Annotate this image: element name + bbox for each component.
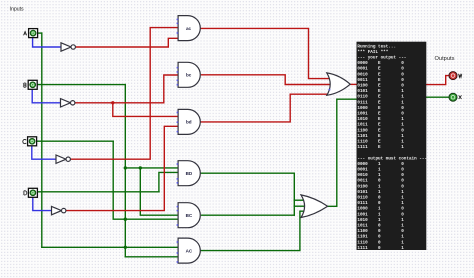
wire: stub into OR1 pin2 <box>294 205 306 207</box>
svg-text:0: 0 <box>401 128 404 133</box>
AND gate bc <box>177 62 201 87</box>
svg-text:1100: 1100 <box>357 229 368 234</box>
svg-text:1: 1 <box>378 173 381 178</box>
junction NOT B branch <box>111 101 114 104</box>
svg-text:0: 0 <box>401 173 404 178</box>
AND gate BC <box>177 203 201 228</box>
wire: B green into AC pin2 <box>125 256 178 258</box>
svg-text:0: 0 <box>401 207 404 212</box>
svg-text:E: E <box>378 84 381 89</box>
wire: C green from pin to vertical <box>37 140 114 142</box>
svg-text:1: 1 <box>401 140 404 145</box>
wire: A green vertical down to AC gate row <box>41 33 43 247</box>
wire: A green horizontal into AC pin1 <box>42 246 178 248</box>
svg-text:1111: 1111 <box>357 246 368 251</box>
junction B to BD branch <box>124 166 127 169</box>
svg-text:1: 1 <box>401 123 404 128</box>
svg-text:0: 0 <box>401 168 404 173</box>
wire: branch down from BD line to BC pin1 <box>140 168 178 215</box>
svg-text:E: E <box>378 134 381 139</box>
svg-text:1: 1 <box>401 89 404 94</box>
svg-text:0: 0 <box>401 179 404 184</box>
svg-text:1: 1 <box>401 224 404 229</box>
svg-text:Outputs: Outputs <box>435 56 455 62</box>
svg-text:0: 0 <box>401 229 404 234</box>
svg-text:0: 0 <box>378 246 381 251</box>
input pin A <box>24 29 38 38</box>
NOT gate B <box>61 99 71 107</box>
svg-text:1: 1 <box>401 201 404 206</box>
svg-text:0: 0 <box>401 72 404 77</box>
wire: D green from pin right <box>37 191 159 193</box>
svg-text:1: 1 <box>401 190 404 195</box>
svg-text:E: E <box>378 123 381 128</box>
wire: NOT B output east <box>75 102 164 104</box>
svg-text:1: 1 <box>401 95 404 100</box>
wire: console to X pin <box>426 96 448 98</box>
svg-text:1: 1 <box>401 117 404 122</box>
svg-text:1: 1 <box>378 184 381 189</box>
svg-text:1: 1 <box>401 218 404 223</box>
wire: OR1 output up to console <box>328 99 357 206</box>
svg-text:0: 0 <box>378 235 381 240</box>
svg-text:1100: 1100 <box>357 128 368 133</box>
svg-text:0: 0 <box>401 67 404 72</box>
AND gate BD <box>177 161 201 186</box>
svg-text:0: 0 <box>401 112 404 117</box>
svg-text:0: 0 <box>378 224 381 229</box>
junction A line crosses B vertical <box>124 246 127 249</box>
svg-text:BC: BC <box>186 213 193 218</box>
wire: NOT A output to ac lower pin (step) <box>76 38 179 47</box>
svg-text:E: E <box>378 67 381 72</box>
wire: B branch to BD pin1 <box>125 167 178 169</box>
svg-text:E: E <box>378 100 381 105</box>
wire: bd output to OR2 pin4 <box>200 94 330 122</box>
AND gate AC <box>177 238 201 263</box>
svg-text:1: 1 <box>378 218 381 223</box>
svg-text:0110: 0110 <box>357 196 368 201</box>
svg-text:1: 1 <box>378 212 381 217</box>
output pin X <box>449 93 462 101</box>
svg-text:0: 0 <box>401 162 404 167</box>
wire: B green vertical down <box>124 85 126 257</box>
svg-text:1001: 1001 <box>357 112 368 117</box>
AND gate ac <box>177 16 201 41</box>
svg-text:0111: 0111 <box>357 201 368 206</box>
svg-text:1: 1 <box>401 246 404 251</box>
svg-text:E: E <box>378 78 381 83</box>
svg-text:E: E <box>378 106 381 111</box>
svg-text:*** FAIL ***: *** FAIL *** <box>357 50 388 55</box>
svg-text:0011: 0011 <box>357 78 368 83</box>
svg-text:E: E <box>378 112 381 117</box>
junction BD line to BC branch <box>139 166 142 169</box>
input pin B <box>24 80 37 89</box>
svg-text:0011: 0011 <box>357 179 368 184</box>
OR gate U2 (top, to W) <box>327 73 350 95</box>
wire: stub into OR1 pin1 <box>294 199 305 201</box>
NOT gate D <box>52 206 62 214</box>
svg-text:1011: 1011 <box>357 123 368 128</box>
wire: B blue stub down to NOT B <box>32 89 60 102</box>
svg-text:0: 0 <box>401 106 404 111</box>
wire: NOT B up into bc pin <box>164 75 178 103</box>
svg-text:0: 0 <box>378 196 381 201</box>
svg-text:0: 0 <box>401 184 404 189</box>
input pin D <box>24 188 38 197</box>
wire: A pin to vertical <box>38 32 42 34</box>
svg-text:Running test...: Running test... <box>357 44 396 49</box>
svg-text:BD: BD <box>186 171 193 176</box>
svg-text:E: E <box>378 128 381 133</box>
output pin W <box>449 72 462 80</box>
wire: OR2 output into console area <box>350 83 356 85</box>
svg-text:1: 1 <box>378 190 381 195</box>
wire: C green vertical down then right to BC pin2 <box>113 141 178 219</box>
svg-text:bc: bc <box>186 73 192 78</box>
svg-text:--- output must contain ---: --- output must contain --- <box>357 156 427 161</box>
svg-text:1110: 1110 <box>357 240 368 245</box>
wire: B green from pin to vertical <box>37 84 125 86</box>
wire: BD output down to OR1 <box>200 173 294 215</box>
wire: NOT D output to bd pin2 (up at x=165) <box>66 126 178 210</box>
svg-text:0110: 0110 <box>357 95 368 100</box>
svg-text:0101: 0101 <box>357 89 368 94</box>
wire: A blue stub down to NOT A <box>33 38 61 47</box>
svg-text:E: E <box>378 140 381 145</box>
svg-text:0101: 0101 <box>357 190 368 195</box>
svg-text:1: 1 <box>401 145 404 150</box>
wire: NOT C output up to ac upper pin <box>71 28 179 160</box>
svg-text:0001: 0001 <box>357 67 368 72</box>
svg-text:0100: 0100 <box>357 84 368 89</box>
svg-text:1001: 1001 <box>357 212 368 217</box>
svg-text:1000: 1000 <box>357 207 368 212</box>
svg-text:0000: 0000 <box>357 162 368 167</box>
wire: ac output to OR2 pin1 <box>200 28 330 78</box>
svg-text:0010: 0010 <box>357 173 368 178</box>
OR gate U1 (bottom, to X) <box>301 195 328 218</box>
svg-text:1101: 1101 <box>357 235 368 240</box>
svg-text:1: 1 <box>401 240 404 245</box>
input pin C <box>23 137 37 146</box>
svg-text:AC: AC <box>186 248 193 253</box>
junction C line crosses B vertical <box>124 218 127 221</box>
NOT gate A <box>61 43 71 51</box>
svg-text:0: 0 <box>401 212 404 217</box>
svg-text:1: 1 <box>378 162 381 167</box>
svg-text:bd: bd <box>186 120 192 125</box>
svg-text:1110: 1110 <box>357 140 368 145</box>
svg-text:1: 1 <box>401 196 404 201</box>
svg-text:0: 0 <box>378 229 381 234</box>
svg-text:1000: 1000 <box>357 106 368 111</box>
NOT gate C <box>56 155 66 163</box>
svg-text:E: E <box>378 117 381 122</box>
svg-text:0: 0 <box>401 78 404 83</box>
svg-text:1: 1 <box>378 168 381 173</box>
wire: BC output joins BD vertical <box>202 214 295 216</box>
console test output panel <box>357 42 428 251</box>
svg-text:E: E <box>378 145 381 150</box>
svg-text:0111: 0111 <box>357 100 368 105</box>
svg-text:E: E <box>378 72 381 77</box>
svg-text:E: E <box>378 89 381 94</box>
svg-text:1: 1 <box>401 134 404 139</box>
wire: console to W pin <box>426 76 448 85</box>
AND gate bd <box>177 109 201 134</box>
svg-text:--- your output ---: --- your output --- <box>357 56 406 61</box>
svg-text:1101: 1101 <box>357 134 368 139</box>
wire: D green step up into BD pin2 <box>159 172 178 191</box>
svg-text:E: E <box>378 61 381 66</box>
svg-text:0100: 0100 <box>357 184 368 189</box>
svg-text:1010: 1010 <box>357 117 368 122</box>
wire: bc output to OR2 pin3 <box>202 75 332 85</box>
svg-text:1: 1 <box>401 100 404 105</box>
svg-text:0001: 0001 <box>357 168 368 173</box>
svg-text:0010: 0010 <box>357 72 368 77</box>
svg-text:Inputs: Inputs <box>10 7 25 13</box>
svg-text:E: E <box>378 95 381 100</box>
svg-text:0: 0 <box>401 84 404 89</box>
svg-text:0: 0 <box>401 61 404 66</box>
svg-text:ac: ac <box>186 26 192 31</box>
svg-text:1010: 1010 <box>357 218 368 223</box>
wire: AC output up to OR1 pin3 <box>201 211 306 250</box>
wire: D blue stub down to NOT D <box>33 197 52 210</box>
svg-text:0: 0 <box>378 179 381 184</box>
svg-text:1111: 1111 <box>357 145 368 150</box>
svg-text:0000: 0000 <box>357 61 368 66</box>
svg-text:0: 0 <box>378 240 381 245</box>
wire: NOT B branch down to bd pin1 <box>113 103 178 117</box>
wire: C blue stub down to NOT C <box>32 146 56 159</box>
svg-text:1011: 1011 <box>357 224 368 229</box>
svg-text:0: 0 <box>378 201 381 206</box>
svg-text:1: 1 <box>401 235 404 240</box>
svg-text:1: 1 <box>378 207 381 212</box>
